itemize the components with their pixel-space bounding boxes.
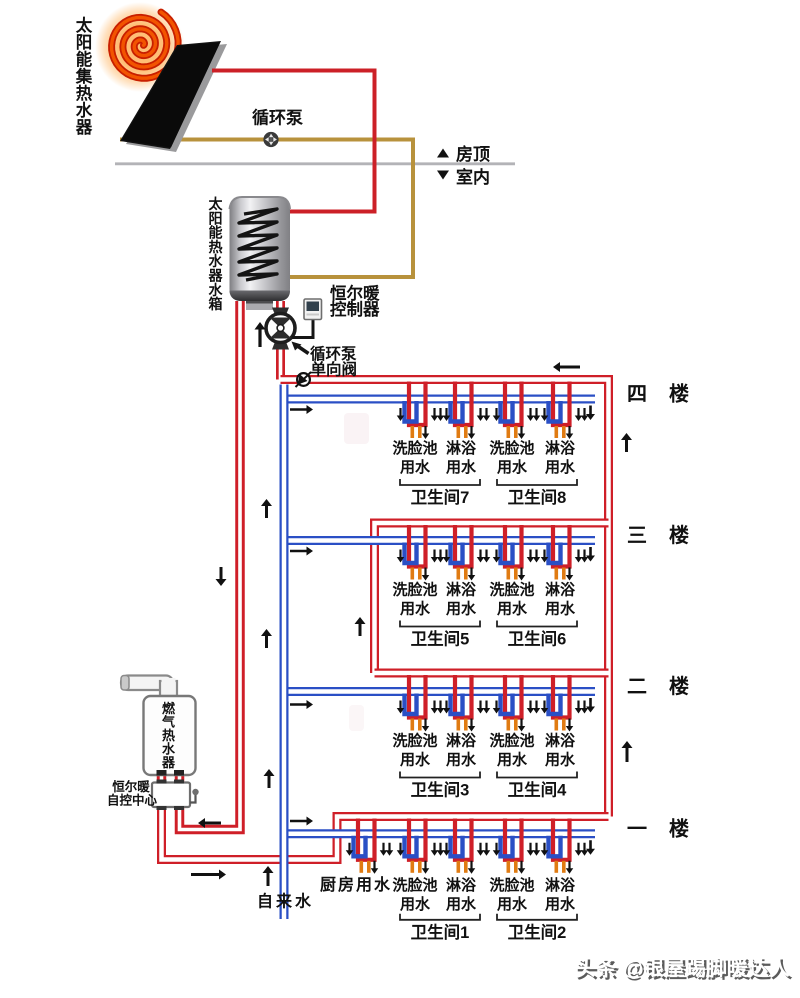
svg-text:器: 器 xyxy=(75,118,93,137)
svg-text:阳: 阳 xyxy=(76,33,93,52)
svg-text:四: 四 xyxy=(627,384,647,406)
fixture unit f1-512 at x=512 xyxy=(493,819,541,874)
svg-text:集: 集 xyxy=(75,66,93,86)
svg-text:箱: 箱 xyxy=(209,296,223,312)
svg-text:循环泵: 循环泵 xyxy=(310,344,357,363)
svg-text:卫生间4: 卫生间4 xyxy=(508,780,568,800)
svg-text:用水: 用水 xyxy=(400,895,431,913)
blue main floor 4 xyxy=(282,395,595,404)
svg-text:卫生间5: 卫生间5 xyxy=(411,629,470,649)
controller 恒尔暖控制器 xyxy=(292,299,322,338)
fixture unit f2-462 at x=462 xyxy=(443,675,491,732)
roof/indoor markers xyxy=(437,144,490,164)
circulation pump (lower) xyxy=(266,308,295,350)
svg-text:楼: 楼 xyxy=(669,383,689,406)
svg-text:淋浴: 淋浴 xyxy=(446,876,477,894)
floor name 三 楼 xyxy=(627,524,689,547)
blue main floor 1 xyxy=(282,829,595,838)
svg-text:洗脸池: 洗脸池 xyxy=(392,876,437,894)
fixture unit f3-416 at x=416 xyxy=(397,525,445,581)
flow arrows on risers xyxy=(553,362,580,372)
red pipe pair: tank bottom to heater control box (left) xyxy=(180,301,241,830)
red main floor1 back to control box xyxy=(162,806,609,860)
label: tank name vertical 太阳能热水器水箱 xyxy=(208,196,224,312)
svg-text:用水: 用水 xyxy=(545,458,576,476)
fixture unit f4-416 at x=416 xyxy=(397,382,445,440)
red pipe: tank to circulation pump down to check-valve line xyxy=(276,301,285,380)
fixture unit f2-512 at x=512 xyxy=(493,675,541,732)
svg-text:洗脸池: 洗脸池 xyxy=(392,732,437,750)
fixture labels floor 2 xyxy=(392,732,576,769)
fixture unit f1-560 at x=560 xyxy=(541,819,589,874)
svg-text:楼: 楼 xyxy=(669,817,689,840)
svg-text:器: 器 xyxy=(161,755,176,770)
svg-text:淋浴: 淋浴 xyxy=(446,439,477,457)
svg-text:淋浴: 淋浴 xyxy=(545,876,576,894)
svg-text:用水: 用水 xyxy=(400,458,431,476)
heater-to-controlbox red stubs xyxy=(157,773,167,783)
bathroom brackets floor 4 xyxy=(400,479,577,507)
svg-text:淋浴: 淋浴 xyxy=(446,732,477,750)
svg-text:恒尔暖: 恒尔暖 xyxy=(330,283,380,303)
svg-text:用水: 用水 xyxy=(400,600,431,618)
fixture unit kitchen at x=365 xyxy=(346,819,394,874)
fixture unit f4-462 at x=462 xyxy=(443,382,491,440)
svg-text:恒尔暖: 恒尔暖 xyxy=(112,779,150,794)
svg-text:用水: 用水 xyxy=(497,895,528,913)
svg-text:洗脸池: 洗脸池 xyxy=(489,581,534,599)
svg-text:用水: 用水 xyxy=(446,600,477,618)
svg-text:水: 水 xyxy=(76,100,93,120)
svg-text:洗脸池: 洗脸池 xyxy=(489,439,534,457)
svg-text:洗脸池: 洗脸池 xyxy=(392,439,437,457)
fixture labels floor 1 xyxy=(320,875,576,913)
svg-text:卫生间8: 卫生间8 xyxy=(508,487,567,507)
svg-text:楼: 楼 xyxy=(669,675,689,698)
red main floor2 xyxy=(375,669,609,678)
svg-text:卫生间2: 卫生间2 xyxy=(508,922,567,942)
blue main floor 2 xyxy=(282,687,595,696)
fixture labels floor 3 xyxy=(392,581,576,618)
svg-text:淋浴: 淋浴 xyxy=(545,732,576,750)
svg-text:淋浴: 淋浴 xyxy=(545,439,576,457)
bathroom brackets floor 2 xyxy=(400,772,577,800)
fixture unit f2-560 at x=560 xyxy=(541,675,589,732)
svg-text:用水: 用水 xyxy=(446,751,477,769)
watermark 头条@银屋踢脚暖达人 xyxy=(575,956,793,983)
circulation pump on tan line xyxy=(263,132,278,147)
svg-text:太: 太 xyxy=(76,15,93,35)
svg-text:楼: 楼 xyxy=(669,524,689,547)
blue main floor 3 xyxy=(282,536,595,545)
svg-text:用水: 用水 xyxy=(497,600,528,618)
svg-text:单向阀: 单向阀 xyxy=(311,360,358,379)
svg-text:卫生间1: 卫生间1 xyxy=(411,922,470,942)
svg-text:用水: 用水 xyxy=(545,751,576,769)
svg-text:头条 @银屋踢脚暖达人: 头条 @银屋踢脚暖达人 xyxy=(575,956,790,980)
sun spiral coil xyxy=(112,12,179,78)
svg-text:房顶: 房顶 xyxy=(456,144,490,164)
svg-text:循环泵: 循环泵 xyxy=(252,108,303,128)
svg-text:用水: 用水 xyxy=(400,751,431,769)
svg-text:一: 一 xyxy=(627,818,647,840)
gas water heater 燃气热水器 xyxy=(144,696,196,776)
fixture unit f2-416 at x=416 xyxy=(397,675,445,732)
gas heater flue xyxy=(121,676,177,697)
fixture unit f4-512 at x=512 xyxy=(493,382,541,440)
tan circulation pipe: panel to pump to tank xyxy=(120,140,413,278)
svg-text:用水: 用水 xyxy=(497,458,528,476)
pointer arrow + labels 循环泵 / 单向阀 xyxy=(292,342,358,379)
floor name 一 楼 xyxy=(627,817,689,840)
fixture unit f3-462 at x=462 xyxy=(443,525,491,581)
red check-valve line / floor4 main / right return riser xyxy=(281,380,609,817)
tank heat-exchange coil xyxy=(239,209,277,280)
grey roof line xyxy=(115,162,515,165)
svg-text:淋浴: 淋浴 xyxy=(545,581,576,599)
svg-text:卫生间7: 卫生间7 xyxy=(411,487,470,507)
svg-text:用水: 用水 xyxy=(446,895,477,913)
fixture unit f3-512 at x=512 xyxy=(493,525,541,581)
sun spiral glow xyxy=(95,2,185,92)
label: solar collector 太阳能集热水器 (vertical) xyxy=(75,15,93,137)
svg-text:热: 热 xyxy=(76,83,93,103)
svg-text:水: 水 xyxy=(295,892,312,911)
floor name 二 楼 xyxy=(627,675,689,698)
label 自来水 xyxy=(257,892,312,911)
solar panel (tilted, grey edge) xyxy=(120,41,227,152)
svg-text:厨房用水: 厨房用水 xyxy=(320,875,392,894)
svg-text:用水: 用水 xyxy=(545,895,576,913)
svg-text:自控中心: 自控中心 xyxy=(107,793,158,808)
svg-text:洗脸池: 洗脸池 xyxy=(489,732,534,750)
control box 恒尔暖自控中心 xyxy=(152,780,199,811)
svg-text:能: 能 xyxy=(76,49,93,69)
red pipe: panel top to tank top xyxy=(212,71,375,212)
bathroom brackets floor 3 xyxy=(400,621,577,649)
floor name 四 楼 xyxy=(627,383,689,406)
svg-text:淋浴: 淋浴 xyxy=(446,581,477,599)
fixture unit f3-560 at x=560 xyxy=(541,525,589,581)
fixture labels floor 4 xyxy=(392,439,576,476)
svg-text:二: 二 xyxy=(627,676,647,698)
svg-text:用水: 用水 xyxy=(497,751,528,769)
red main floor3 + left riser down to floor2 xyxy=(375,523,609,673)
svg-text:洗脸池: 洗脸池 xyxy=(489,876,534,894)
blue cold-water riser xyxy=(280,385,289,920)
svg-text:室内: 室内 xyxy=(456,167,490,187)
check valve xyxy=(296,372,312,387)
svg-text:自: 自 xyxy=(257,892,273,911)
svg-text:三: 三 xyxy=(627,525,647,547)
svg-text:卫生间3: 卫生间3 xyxy=(411,780,470,800)
svg-text:洗脸池: 洗脸池 xyxy=(392,581,437,599)
svg-text:卫生间6: 卫生间6 xyxy=(508,629,567,649)
svg-text:用水: 用水 xyxy=(545,600,576,618)
fixture unit f1-462 at x=462 xyxy=(443,819,491,874)
svg-text:控制器: 控制器 xyxy=(330,299,380,319)
faint scan smudges xyxy=(344,413,369,444)
fixture unit f4-560 at x=560 xyxy=(541,382,589,440)
fixture unit f1-416 at x=416 xyxy=(397,819,445,874)
svg-text:来: 来 xyxy=(275,892,293,911)
svg-text:用水: 用水 xyxy=(446,458,477,476)
bathroom brackets floor 1 xyxy=(400,914,577,942)
